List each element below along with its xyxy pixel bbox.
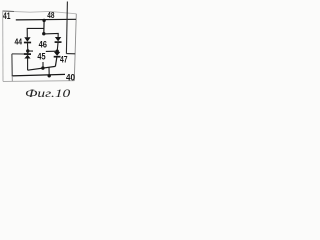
wire S1 (vertical from D1): [43, 20, 45, 33]
svg-text:46: 46: [39, 39, 47, 49]
wire W1 (branch left to diode 44): [27, 28, 44, 37]
block 41 outline: bottom border: [3, 80, 74, 83]
wire diode44 to node D3: [27, 43, 29, 51]
svg-text:47: 47: [60, 54, 68, 65]
diode 44 cathode bar: [24, 42, 31, 44]
svg-text:44: 44: [15, 37, 23, 47]
diode 44 triangle: [24, 37, 30, 41]
diode 47 triangle: [54, 52, 60, 56]
svg-text:45: 45: [37, 52, 45, 62]
svg-text:48: 48: [47, 10, 54, 20]
junction dot D5 on rail A: [41, 66, 44, 69]
diode 46 triangle: [55, 37, 61, 41]
wire W2 (from D2 right to diode 46): [44, 33, 58, 37]
wire diode 46 to node D4: [56, 43, 59, 51]
diode 45 cathode bar: [24, 53, 31, 55]
wire diode 45 down to rail A: [27, 59, 29, 71]
wire 48 (top horizontal wire): [16, 18, 76, 21]
background: [0, 0, 79, 100]
wire diode 47 down to rail A corner: [55, 58, 56, 67]
wire V1 (vertical from top): [66, 2, 67, 54]
diode 47 cathode bar: [54, 56, 61, 58]
diode 45 triangle (pointing up): [24, 55, 30, 59]
diode 46 cathode bar: [55, 41, 62, 43]
junction dot D2 at corner: [42, 32, 45, 35]
junction dot D6 on rail 40: [48, 74, 51, 77]
wire stub S2 up from D5: [42, 62, 44, 68]
wire V1 corner to right border: [66, 53, 75, 55]
junction dot D1 on wire 48: [42, 19, 45, 22]
svg-text:Фиг.10: Фиг.10: [25, 88, 71, 100]
junction dot D4: [56, 50, 59, 53]
wire vertical connector rail A to rail 40: [48, 67, 50, 76]
wire D3 to diode 45: [27, 51, 29, 54]
block 41 outline: top border: [3, 11, 77, 14]
svg-text:41: 41: [3, 11, 11, 22]
wire W3b (from D4 left): [46, 50, 57, 52]
block 41 outline: left border: [2, 11, 4, 81]
wire vertical x12 (left connector): [11, 54, 13, 76]
svg-text:40: 40: [66, 72, 75, 82]
junction dot D3: [26, 49, 29, 52]
block 41 outline: right border: [74, 14, 76, 81]
block 41 outline: top border dark left segment: [3, 10, 15, 13]
wire W3a (stub right from D3): [28, 50, 33, 52]
wire horizontal to diode 45 bar: [12, 53, 24, 55]
wire vertical x12 lower faint segment: [11, 76, 13, 81]
rail A (lower inner horizontal wire): [28, 66, 56, 70]
rail 40 (bottom bus wire): [12, 74, 65, 76]
